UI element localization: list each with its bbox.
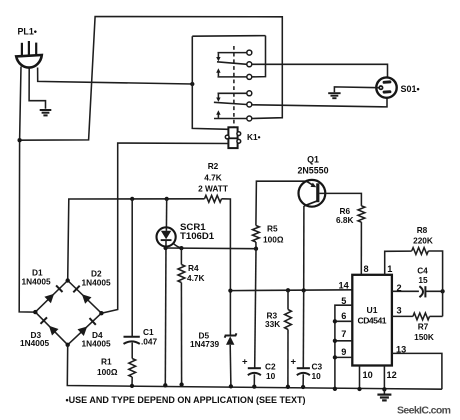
SCR1 T106D1 xyxy=(157,227,182,248)
svg-text:T106D1: T106D1 xyxy=(180,231,215,242)
svg-text:150K: 150K xyxy=(414,332,434,342)
transistor Q1 2N5550 xyxy=(299,180,326,207)
svg-text:R5: R5 xyxy=(267,224,278,234)
pin 1 wire xyxy=(385,251,412,275)
svg-text:PL1•: PL1• xyxy=(18,27,37,37)
relay contact pole 2 common slant xyxy=(214,102,247,104)
svg-text:1: 1 xyxy=(387,264,392,274)
svg-text:4.7K: 4.7K xyxy=(204,172,222,182)
svg-text:C1: C1 xyxy=(143,327,154,337)
wire C3 column xyxy=(302,290,304,368)
relay coil K1 xyxy=(225,127,240,148)
pin 12 wire xyxy=(383,366,385,390)
pins 5 6 7 9 stubs xyxy=(335,305,352,389)
junction bus pin 10 xyxy=(357,387,361,391)
svg-text:+: + xyxy=(291,357,297,368)
wire gate rail to R5 xyxy=(166,247,256,250)
relay contact pole 1 NO line xyxy=(218,76,247,78)
pin 3 wire and resistor R7 150K xyxy=(392,315,413,317)
ground at U1 pin 12 xyxy=(377,389,391,400)
junction SCR column on R2 rail xyxy=(165,197,169,201)
svg-text:R4: R4 xyxy=(188,263,199,273)
capacitor C3 10 xyxy=(297,368,310,387)
relay contact pole 1 terminals xyxy=(247,50,252,79)
wire socket ground xyxy=(334,87,379,92)
junction C4 right xyxy=(440,289,444,293)
svg-text:100Ω: 100Ω xyxy=(97,367,118,377)
wire plug hot down-left to bridge AC node xyxy=(19,67,35,313)
wire Q1 emitter to R5 xyxy=(256,181,306,225)
resistor R5 100ohm xyxy=(253,226,260,243)
diode D3 1N4005 xyxy=(35,312,67,345)
wire relay box top edge xyxy=(192,35,265,38)
junction pins 6 7 9 on common xyxy=(333,319,337,359)
svg-text:1N4005: 1N4005 xyxy=(82,278,111,288)
ground below plug xyxy=(40,110,52,115)
svg-text:33K: 33K xyxy=(265,319,280,329)
wire relay box left edge to coil K1 xyxy=(192,36,228,129)
svg-text:13: 13 xyxy=(396,344,406,354)
plug PL1 xyxy=(16,41,42,68)
junction bus R4 xyxy=(179,382,183,386)
wire SCR cathode column to bus xyxy=(164,240,167,385)
junction D5 column / pin14 rail xyxy=(228,288,232,292)
zener D5 1N4739 xyxy=(225,333,237,386)
diode D4 1N4005 xyxy=(68,313,102,345)
svg-text:5: 5 xyxy=(341,296,346,306)
wire 5V rail to U1 pin 14 xyxy=(230,289,352,292)
svg-text:R7: R7 xyxy=(418,322,429,332)
junction bus D5 xyxy=(229,384,233,388)
svg-text:8: 8 xyxy=(364,264,369,274)
svg-text:CD4541: CD4541 xyxy=(358,316,387,326)
junction bus C3 xyxy=(301,385,305,389)
wire SCR anode xyxy=(165,199,167,231)
svg-text:U1: U1 xyxy=(367,305,378,315)
relay contact pole 2 armature arrow down xyxy=(217,94,219,98)
svg-text:100Ω: 100Ω xyxy=(263,235,284,245)
junction outer loop / plug wire xyxy=(17,138,21,142)
pin 13 wire wrap to ground bus xyxy=(392,353,442,389)
svg-text:12: 12 xyxy=(387,370,397,380)
svg-text:•USE AND TYPE DEPEND ON APPLIC: •USE AND TYPE DEPEND ON APPLICATION (SEE… xyxy=(66,395,306,405)
svg-text:C3: C3 xyxy=(312,362,323,372)
wire bridge bottom to ground bus xyxy=(67,345,442,389)
wire relay box right edge to NO contact xyxy=(252,36,266,77)
diode D1 1N4005 xyxy=(35,281,67,313)
wire plug to relay box left edge xyxy=(38,68,193,85)
svg-text:1N4739: 1N4739 xyxy=(190,339,219,349)
relay contact pole 1 NC line xyxy=(218,52,247,54)
capacitor C1 .047 xyxy=(124,337,140,344)
junction R4 top xyxy=(179,246,183,250)
junction bus SCR column xyxy=(163,383,167,387)
ground at socket xyxy=(328,93,340,98)
wire plug neutral to chassis ground xyxy=(29,69,45,109)
relay contact pole 2 NO line xyxy=(214,118,247,120)
relay contact pole 1 armature arrow down xyxy=(217,53,219,58)
svg-text:S01•: S01• xyxy=(401,84,420,94)
svg-text:14: 14 xyxy=(339,280,350,290)
svg-text:1N4005: 1N4005 xyxy=(20,338,49,348)
resistor R3 33K xyxy=(287,290,289,309)
svg-text:Q1: Q1 xyxy=(307,155,319,165)
wire R2 right to zener column xyxy=(222,199,231,335)
pin 2 wire to C4 xyxy=(392,290,419,292)
svg-text:2 WATT: 2 WATT xyxy=(198,183,228,193)
wire Q1 collector down xyxy=(303,206,305,291)
svg-text:R2: R2 xyxy=(208,161,219,171)
junction R3 top xyxy=(286,288,290,292)
svg-text:10: 10 xyxy=(266,371,276,381)
svg-text:3: 3 xyxy=(397,306,402,316)
svg-text:6: 6 xyxy=(341,311,346,321)
junction C1 column on R2 rail xyxy=(130,197,134,201)
svg-text:SeekIC.com: SeekIC.com xyxy=(397,405,451,417)
wire R6 to U1 pin 8 xyxy=(360,222,362,275)
svg-text:1N4005: 1N4005 xyxy=(22,277,51,287)
svg-text:C2: C2 xyxy=(265,362,276,372)
wire K1 lower terminal to rectifier AC node xyxy=(101,143,228,313)
resistor R4 4.7K xyxy=(180,248,182,264)
wire C1 column xyxy=(131,199,133,337)
relay actuator dashed link xyxy=(233,46,235,127)
relay contact pole 1 common slant xyxy=(217,62,247,65)
wire Q1 base to R6 xyxy=(319,193,361,206)
resistor R8 220K xyxy=(412,248,429,255)
wire R5/C2 column down xyxy=(255,249,256,368)
junction plug wire / relay box edge xyxy=(190,82,194,86)
svg-text:C4: C4 xyxy=(417,266,428,276)
wire bridge top node to R2 rail xyxy=(68,199,205,281)
relay contact pole 2 armature arrow up xyxy=(217,114,219,118)
svg-text:R8: R8 xyxy=(417,225,428,235)
resistor R2 4.7K 2 WATT xyxy=(205,195,222,202)
diode D2 1N4005 xyxy=(68,281,102,314)
wire relay pole2 common to socket SO1 bottom xyxy=(252,98,387,107)
junction bridge nodes xyxy=(33,278,104,347)
resistor R6 6.8K xyxy=(358,206,365,222)
junction bus C2 xyxy=(252,384,256,388)
svg-text:220K: 220K xyxy=(413,236,433,246)
junction Q1 collector / C3 column xyxy=(302,288,306,292)
socket SO1 xyxy=(376,77,396,97)
svg-text:K1•: K1• xyxy=(247,132,261,142)
junction bus pins common xyxy=(333,387,337,391)
svg-text:2: 2 xyxy=(397,283,402,293)
relay contact pole 2 NC line xyxy=(218,92,247,94)
junction SCR cathode / gate rail xyxy=(163,246,167,250)
IC U1 CD4541 xyxy=(352,275,392,366)
svg-text:R1: R1 xyxy=(101,357,112,367)
junction R5 bottom xyxy=(254,247,258,251)
capacitor C4 15 xyxy=(419,286,442,297)
svg-text:2N5550: 2N5550 xyxy=(297,166,328,176)
svg-text:15: 15 xyxy=(418,275,428,285)
junction bus R3 xyxy=(286,385,290,389)
relay contact pole 2 terminals xyxy=(247,91,252,121)
pin 10 wire xyxy=(359,366,361,390)
resistor R1 100ohm xyxy=(131,343,133,359)
svg-text:10: 10 xyxy=(363,370,373,380)
junction bus pin 12 xyxy=(382,387,386,391)
svg-text:7: 7 xyxy=(341,329,346,339)
capacitor C2 10 xyxy=(248,368,261,386)
svg-text:9: 9 xyxy=(341,347,346,357)
svg-text:.047: .047 xyxy=(141,337,158,347)
svg-text:6.8K: 6.8K xyxy=(336,215,354,225)
wire relay pole1 common to socket SO1 top xyxy=(252,64,388,77)
svg-text:4.7K: 4.7K xyxy=(187,273,205,283)
wire outer loop top and sides xyxy=(20,17,283,141)
svg-text:1N4005: 1N4005 xyxy=(82,339,111,349)
junction bus R1 xyxy=(130,384,134,388)
relay contact pole 1 armature arrow up xyxy=(217,72,219,76)
svg-text:10: 10 xyxy=(312,371,322,381)
svg-text:+: + xyxy=(242,357,248,368)
